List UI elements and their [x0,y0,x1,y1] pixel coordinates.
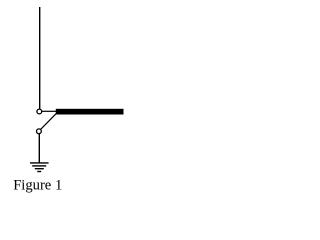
switch lever (pole arm of SW1) [41,114,57,130]
switch contact A (top throw terminal of SW1) [37,109,42,114]
label "Figure 1" (caption) [13,177,62,193]
wire W1 (top vertical lead) [39,7,41,109]
wire W2 (contact A to bus bar) [42,110,57,112]
bus bar (thick conductor) [56,109,124,115]
wire W3 (contact B to ground) [38,134,40,163]
svg-text:Figure 1: Figure 1 [13,177,62,193]
switch contact B (pole terminal of SW1) [37,129,42,134]
ground (earth symbol) [30,163,49,172]
